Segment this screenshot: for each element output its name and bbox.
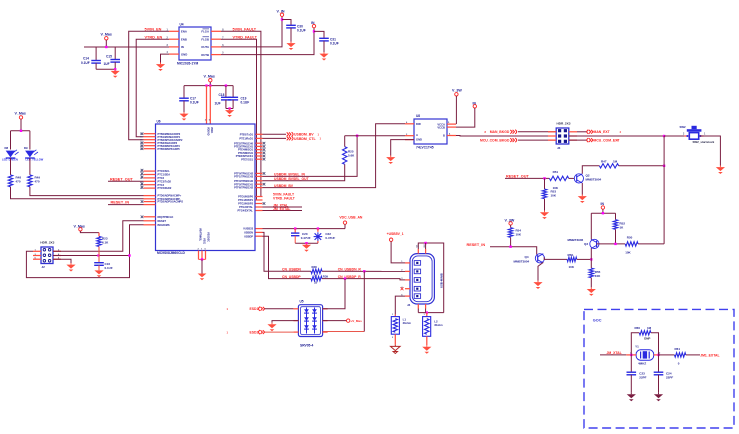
wire OUTB up to IN node <box>221 28 314 55</box>
wire R47 to SW2 node <box>619 165 664 167</box>
svg-text:0.47UF: 0.47UF <box>325 236 335 240</box>
svg-text:PTG1/KBIP1: PTG1/KBIP1 <box>238 198 253 202</box>
wire USB shield top loop <box>418 243 443 313</box>
svg-text:USBDN: USBDN <box>244 231 253 235</box>
svg-text:Q4: Q4 <box>525 255 529 259</box>
svg-text:RESET_OUT: RESET_OUT <box>506 174 529 178</box>
svg-text:0.1UF: 0.1UF <box>330 42 339 46</box>
svg-text:R51: R51 <box>553 170 559 174</box>
svg-text:V_3W: V_3W <box>452 89 462 93</box>
power flag IN <box>311 21 316 28</box>
svg-text:2: 2 <box>392 337 394 339</box>
junction crystal pin1 <box>630 354 632 356</box>
svg-text:U4: U4 <box>180 23 184 27</box>
resistor R51 10K series <box>549 170 568 190</box>
header J2 pin stubs <box>33 250 61 260</box>
svg-text:R38: R38 <box>312 265 318 269</box>
junction shield bottom <box>426 311 428 313</box>
svg-text:LED_YELLOW: LED_YELLOW <box>26 158 44 162</box>
wire USBDP to series resistor <box>263 236 312 278</box>
svg-text:ESD2: ESD2 <box>250 331 259 335</box>
junction USBDN ESD tap <box>363 270 365 272</box>
capacitor C19 0.1UF loop <box>226 86 249 109</box>
svg-text:MMBT3906: MMBT3906 <box>568 238 584 242</box>
wire header pin2 up to MCU RESET <box>53 221 144 252</box>
svg-text:FLGA: FLGA <box>201 30 209 34</box>
svg-text:Q3: Q3 <box>584 242 588 246</box>
wire header pin4 to BKGD vertical <box>53 255 130 257</box>
svg-text:GND: GND <box>416 138 422 142</box>
wire PTF riser 1 to A-pin bus <box>263 136 358 177</box>
svg-text:MCU_COM_BKGD: MCU_COM_BKGD <box>480 138 510 142</box>
svg-text:+V_Mas: +V_Mas <box>351 319 363 323</box>
svg-text:Y1: Y1 <box>635 345 639 349</box>
transistor Q3 MMBT3906 (PNP) <box>568 238 600 249</box>
wire CN_USBDP_R to USB pin3 <box>322 279 405 280</box>
MCU left pin stubs group IRQ RESET BKGD <box>141 215 174 227</box>
junction VSS node <box>201 258 203 260</box>
svg-text:10K: 10K <box>625 250 631 254</box>
power flag IN reset divider <box>601 202 605 213</box>
ground below C30 <box>290 42 292 44</box>
svg-text:0.47UF: 0.47UF <box>301 236 311 240</box>
off-page connector MCU_COM_EXT <box>569 138 621 143</box>
junction on IN rail at V_Mas drop <box>105 46 107 48</box>
wire Q2 emitter to ground <box>581 183 583 195</box>
svg-text:BKGD/MS: BKGD/MS <box>158 223 170 227</box>
svg-text:D8: D8 <box>5 146 9 150</box>
wire U5 pin4 up to CN_USBDN_R <box>323 331 365 333</box>
capacitor C24 22PF <box>654 355 674 393</box>
svg-text:OUTB: OUTB <box>201 53 209 57</box>
svg-text:U6: U6 <box>157 120 161 124</box>
net label JM1_EXTAL in GOC <box>686 353 720 357</box>
svg-text:SW2_startstock: SW2_startstock <box>693 140 715 144</box>
resistor R49 470 <box>28 175 41 187</box>
junction rail <box>205 84 207 86</box>
svg-text:8: 8 <box>485 130 487 134</box>
svg-text:1: 1 <box>424 314 426 316</box>
chip U8 74LVC1T45 body <box>414 114 447 150</box>
svg-text:30ohm: 30ohm <box>403 321 412 325</box>
capacitor C30 0.1UF on V_IN <box>282 20 306 42</box>
ground L1 (outline) <box>394 345 396 347</box>
svg-text:R56: R56 <box>568 253 574 257</box>
ground below C17 <box>183 112 185 114</box>
net node +V_Mas at U5 pin5 <box>323 319 362 323</box>
resistor R39 on USBDP <box>311 275 328 285</box>
svg-text:MAN_EXT: MAN_EXT <box>594 130 611 134</box>
wire Q2 collector up <box>582 166 599 174</box>
svg-text:470: 470 <box>16 180 21 184</box>
svg-text:U8: U8 <box>416 114 420 118</box>
junction pullup tap <box>97 254 99 256</box>
power flag V_3W reset-in pullup <box>505 219 515 228</box>
LED D9 LED_YELLOW <box>24 131 44 175</box>
resistor R50 10K <box>625 236 638 255</box>
ground R55 <box>590 287 592 289</box>
wire R49 to MCU PTD row <box>30 187 144 196</box>
svg-text:30ohm: 30ohm <box>434 323 443 327</box>
capacitor C20 0.47UF <box>291 227 311 243</box>
dashed box GOC oscillator section <box>584 309 734 428</box>
svg-text:D9: D9 <box>24 146 28 150</box>
resistor R55 10K <box>589 268 601 287</box>
wire RESET_OUT stub <box>108 180 144 182</box>
header J3 pin stubs <box>548 132 577 140</box>
svg-text:1K: 1K <box>620 225 625 229</box>
ground Q2 emitter <box>581 195 583 197</box>
wire U5 pin2 to ground <box>272 321 298 323</box>
svg-text:470: 470 <box>35 180 40 184</box>
svg-text:VDDAD: VDDAD <box>206 127 209 136</box>
wire FLGB down right side of MCU to PTG row <box>221 39 257 200</box>
svg-text:33: 33 <box>314 281 318 285</box>
resistor R48 470 <box>8 175 21 187</box>
svg-text:CN_USBDN_R: CN_USBDN_R <box>338 267 362 271</box>
ground below C14 C15 <box>114 69 116 71</box>
junction USBDP ESD tap <box>344 277 346 279</box>
svg-text:PTG3/XTAL: PTG3/XTAL <box>239 205 253 209</box>
junction crystal pin2 <box>657 354 659 356</box>
wire U4 GND to ground <box>161 54 170 62</box>
junction R54 tap <box>509 246 511 248</box>
svg-text:CN_USBDP: CN_USBDP <box>282 275 301 279</box>
wire CN_USBDN_R to USB pin2 <box>322 270 405 272</box>
svg-text:4MHZ: 4MHZ <box>638 362 646 366</box>
svg-text:5.6K: 5.6K <box>348 154 355 158</box>
resistor R23 6.1K pullup <box>97 233 109 247</box>
off-page connector MAN_BKGD <box>485 130 517 135</box>
ferrite bead L2 <box>423 313 444 346</box>
U8 pin stubs <box>405 122 456 140</box>
resistor R38 on USBDN <box>311 265 322 277</box>
svg-text:OUTA: OUTA <box>201 45 209 49</box>
svg-text:1M: 1M <box>613 160 618 164</box>
svg-text:MMBT3904: MMBT3904 <box>586 178 602 182</box>
svg-text:JM_EXTAL: JM_EXTAL <box>273 207 290 211</box>
svg-text:J4: J4 <box>407 303 411 307</box>
svg-text:J2: J2 <box>42 265 46 269</box>
wire MAN_BKGD to header <box>518 131 556 133</box>
svg-text:HDR_2X3: HDR_2X3 <box>40 241 54 245</box>
wire RESET_IN to Q4 base <box>490 247 537 255</box>
junction pin4 node <box>128 254 130 256</box>
ground below C18 C19 <box>229 109 231 111</box>
svg-text:R61: R61 <box>675 347 681 351</box>
wire RESET_IN stub <box>108 204 144 206</box>
wire R23 to cap C16 (highlighted) <box>98 247 100 263</box>
vertical ESD tap to USBDN row <box>363 271 365 331</box>
wire USB shield bottom bus <box>418 312 443 314</box>
svg-text:PTC4: PTC4 <box>158 183 165 187</box>
wire FLGA down right side of MCU to PTG row <box>221 31 261 196</box>
wire ENB to MCU PTB row <box>136 39 169 137</box>
svg-text:PTE7/SS1: PTE7/SS1 <box>241 157 253 161</box>
vertical wire SW2 node down to R50 <box>663 136 665 244</box>
LED D8 LED_GREEN <box>2 131 19 175</box>
connector J4 USB-MINIB body <box>407 254 444 308</box>
chip U5 SRV05-4 body <box>298 299 322 347</box>
svg-text:L1: L1 <box>403 318 407 322</box>
svg-text:L2: L2 <box>434 320 438 324</box>
svg-text:PTC2: PTC2 <box>158 176 165 180</box>
net label VDC_USB_AN <box>339 216 363 225</box>
wire VUSB33 rail <box>263 224 346 228</box>
svg-text:R50: R50 <box>627 236 633 240</box>
net label JM_XTAL <box>263 203 303 207</box>
svg-text:IN: IN <box>181 45 184 49</box>
wire header pin6 to ground <box>53 259 71 263</box>
svg-text:SRV05-4: SRV05-4 <box>300 344 313 348</box>
wire V_Mas rail to U4 IN pin <box>84 46 169 48</box>
svg-text:HDR_2X3: HDR_2X3 <box>557 122 571 126</box>
svg-text:6.1K: 6.1K <box>102 241 109 245</box>
svg-text:GOC: GOC <box>593 319 602 323</box>
wire joining C14 C15 bottoms <box>96 68 115 70</box>
svg-text:0.1UF: 0.1UF <box>81 61 90 65</box>
capacitor C16 0.1UF <box>94 262 113 270</box>
svg-text:1: 1 <box>392 314 394 316</box>
svg-text:R47: R47 <box>601 160 607 164</box>
ground R53 <box>544 211 546 213</box>
wire USB pin5 down to L1 <box>395 296 405 315</box>
svg-text:74LVC1T45: 74LVC1T45 <box>416 146 434 150</box>
svg-text:VDC_USB_AN: VDC_USB_AN <box>339 216 363 220</box>
svg-text:22PF: 22PF <box>666 376 673 380</box>
svg-text:FLGB: FLGB <box>201 37 209 41</box>
wire PTF riser 3 to U8 DIR <box>263 124 406 188</box>
wire Q3 collector-emitter vertical <box>590 248 592 268</box>
wire shield pin G2 top <box>425 243 427 249</box>
svg-text:USBDM_CTL: USBDM_CTL <box>294 137 316 141</box>
svg-text:1: 1 <box>704 134 706 136</box>
resistor R60 1M feedback <box>631 326 658 355</box>
MCU VDD pin stubs (vertical red) <box>205 86 211 124</box>
svg-text:0.1UF: 0.1UF <box>241 101 250 105</box>
transistor Q4 MMBT3904 <box>514 254 545 264</box>
wire R51 to Q2 base <box>569 177 575 179</box>
power flag V_Mas reset pullup <box>74 224 100 232</box>
capacitor C17 0.1UF <box>179 86 199 112</box>
resistor R52 1K <box>613 220 625 244</box>
svg-text:DNP: DNP <box>644 336 650 340</box>
wire U8 B to BDM header row (MCU_COM_BKGD) <box>456 135 556 138</box>
wire U8 GND to ground <box>391 140 414 156</box>
wire USBDN to series resistor <box>263 232 312 271</box>
svg-text:RESET: RESET <box>158 219 167 223</box>
svg-text:0.1UF: 0.1UF <box>105 266 113 270</box>
ground below C16 <box>98 269 100 271</box>
svg-text:1: 1 <box>320 137 322 141</box>
svg-text:PTB5/KBIP5/ADP5: PTB5/KBIP5/ADP5 <box>158 147 181 151</box>
off-page connector ESD1 <box>250 307 294 312</box>
ground L2 <box>426 345 428 347</box>
svg-text:DIR: DIR <box>416 122 421 126</box>
wire IN node tee <box>591 213 615 239</box>
svg-text:VSSOSC: VSSOSC <box>207 232 210 242</box>
svg-text:4: 4 <box>620 130 622 134</box>
svg-text:10K: 10K <box>569 265 575 269</box>
svg-text:C15: C15 <box>106 55 112 59</box>
junction cap bottoms <box>305 242 307 244</box>
svg-text:1: 1 <box>227 307 229 311</box>
svg-text:22PF: 22PF <box>639 376 646 380</box>
svg-text:J3: J3 <box>557 146 561 150</box>
power flag V_Mas above MCU <box>204 75 215 86</box>
power flag V_3W for U8 <box>452 89 462 124</box>
svg-text:10K: 10K <box>551 194 557 198</box>
ground below MCU VSS <box>198 274 207 281</box>
capacitor C15 1UF on IN rail <box>104 47 121 69</box>
MCU right pin stubs VUSB33 USBDN USBDP <box>243 227 262 239</box>
junction SW2 node <box>663 135 665 137</box>
svg-text:MAN_BKGD: MAN_BKGD <box>490 130 510 134</box>
junction at cap bottoms <box>114 68 116 70</box>
svg-text:PTC0/SCL: PTC0/SCL <box>158 169 171 173</box>
svg-text:PTE1/RxD1: PTE1/RxD1 <box>239 137 253 141</box>
wire RESET_OUT to R51 <box>505 177 549 179</box>
svg-text:C14: C14 <box>83 57 89 61</box>
svg-text:0.1UF: 0.1UF <box>297 29 306 33</box>
junction OUTA cap tap <box>281 18 283 20</box>
svg-text:PTE0/TxD1: PTE0/TxD1 <box>240 132 254 136</box>
svg-text:USB-MINIB: USB-MINIB <box>440 273 444 288</box>
off-page connector MCU_COM_BKGD <box>480 138 556 142</box>
header HDR_2X3 J3 <box>556 122 571 150</box>
V_Mas decoupling rail <box>184 85 233 87</box>
svg-text:V_Mas: V_Mas <box>204 75 215 79</box>
wire A-pin bus to U8 A <box>345 135 405 137</box>
wire shield pins bottom <box>418 309 425 313</box>
ground U8 <box>390 156 392 158</box>
wire cap bottoms bar <box>295 242 318 244</box>
junction IN tee <box>602 212 604 214</box>
off-page connector MAN_EXT <box>577 130 622 135</box>
U5 pin stubs <box>293 309 327 332</box>
svg-text:0.1UF: 0.1UF <box>190 101 199 105</box>
junction SW2 vertical <box>663 165 665 167</box>
svg-text:ENA: ENA <box>181 30 187 34</box>
ground C24 (maroon) <box>658 393 660 395</box>
wire header pin1 loop to MCU BKGD (left route) <box>26 225 143 278</box>
wire Q3 base to R52 R50 node <box>597 243 626 245</box>
svg-text:PTC5/RxD2: PTC5/RxD2 <box>158 186 172 190</box>
op-amp U4 power distribution switch MIC2026-1YM body <box>177 23 211 66</box>
svg-text:ESD1: ESD1 <box>250 307 259 311</box>
svg-text:C18: C18 <box>219 93 225 97</box>
svg-text:VSS1: VSS1 <box>203 238 206 245</box>
svg-text:R60: R60 <box>635 326 641 330</box>
MCU right pin stubs group PTG <box>237 195 265 213</box>
svg-text:VDD1: VDD1 <box>210 127 213 134</box>
resistor R61 0 series <box>659 347 686 365</box>
svg-text:V_Mas: V_Mas <box>15 112 26 116</box>
svg-text:PTF6/TPM2CH2: PTF6/TPM2CH2 <box>234 186 253 190</box>
svg-text:PTF1/TPM1CH3: PTF1/TPM1CH3 <box>234 175 253 179</box>
net label JM_EXTAL <box>263 207 303 211</box>
svg-text:USBDP: USBDP <box>244 234 253 238</box>
transistor Q2 MMBT3904 <box>574 174 601 184</box>
resistor R53 10K base pulldown <box>542 178 557 210</box>
wire R48 to MCU PTD row <box>11 187 144 199</box>
svg-text:PTD2/ADP10/ACMPO: PTD2/ADP10/ACMPO <box>158 200 184 204</box>
svg-text:ENB: ENB <box>181 37 187 41</box>
svg-text:VUSB33: VUSB33 <box>243 227 253 231</box>
junction Q3 emitter node <box>590 258 592 260</box>
svg-text:SW2: SW2 <box>680 125 687 129</box>
svg-text:B: B <box>443 134 445 138</box>
wire VSS to ground <box>201 259 203 273</box>
crystal Y1 4MHz <box>626 345 661 366</box>
svg-text:JM1_EXTAL: JM1_EXTAL <box>700 353 719 357</box>
ground SW2 <box>719 166 721 168</box>
wire Q4 emitter to ground <box>538 262 543 280</box>
svg-text:10K: 10K <box>516 233 522 237</box>
svg-text:10K: 10K <box>595 274 601 278</box>
header HDR_2X3 J2 (BDM) <box>40 241 54 269</box>
wire U5 pin6 up to CN_USBDP_R <box>323 279 345 309</box>
svg-text:JM_XTAL: JM_XTAL <box>607 351 622 355</box>
MCU right pin stubs group PTF <box>234 172 265 190</box>
capacitor C23 22PF <box>627 355 647 393</box>
svg-text:VCCB: VCCB <box>437 126 445 130</box>
svg-text:MC9S08JM60CLD: MC9S08JM60CLD <box>157 251 185 255</box>
resistor R25 5.6K on riser <box>343 136 356 165</box>
svg-text:1: 1 <box>318 133 320 137</box>
capacitor C31 0.1UF on IN node <box>314 31 339 52</box>
wire ENA to MCU PTB row <box>129 31 169 139</box>
svg-text:RESET_IN: RESET_IN <box>467 243 486 247</box>
U4 pin stubs and numbers <box>167 29 225 54</box>
ground below C31 <box>323 52 325 54</box>
capacitor C22 0.47UF (star symbol) <box>314 227 336 243</box>
svg-text:LED_GREEN: LED_GREEN <box>2 158 18 162</box>
resistor R54 10K <box>508 228 521 247</box>
svg-text:VBATMHSL: VBATMHSL <box>199 228 202 242</box>
power flag V_Mas LED circuit <box>15 112 26 131</box>
svg-text:PTG0/KBIP0: PTG0/KBIP0 <box>238 195 253 199</box>
svg-text:2: 2 <box>683 134 685 136</box>
ground U5 pin2 <box>271 323 273 325</box>
ferrite bead L1 <box>391 314 411 345</box>
ground for U4 <box>160 63 162 65</box>
USB pin stubs <box>401 244 426 309</box>
capacitor C18 1UF <box>215 86 232 109</box>
junction shield top <box>424 242 426 244</box>
resistor R56 10K <box>567 253 577 269</box>
capacitor C14 0.1UF on IN rail <box>81 47 101 69</box>
svg-text:IRQ/TPMCLK: IRQ/TPMCLK <box>158 215 174 219</box>
power flag V_Mas (top-left, feeds U4 IN rail) <box>101 33 112 47</box>
junction Q3 base node <box>614 243 616 245</box>
power flag +USB5V_1 <box>387 232 404 241</box>
junction OUTB cap tap <box>313 30 315 32</box>
svg-text:A: A <box>416 133 418 137</box>
MCU left pin stubs group PTC <box>140 169 172 190</box>
svg-text:PTC3/TxD2: PTC3/TxD2 <box>158 179 172 183</box>
svg-text:1UF: 1UF <box>104 62 110 66</box>
svg-text:0: 0 <box>678 361 680 365</box>
wire LED top bar <box>11 130 30 132</box>
svg-text:CN_USBDN: CN_USBDN <box>282 267 301 271</box>
svg-text:RESET_IN: RESET_IN <box>111 201 130 205</box>
wire SW2 to ground <box>700 136 721 166</box>
wire OUTA up to V_IN <box>221 16 282 47</box>
ground Q4 <box>537 281 539 283</box>
wire PTF riser 2 with resistor <box>263 164 345 181</box>
svg-text:1M: 1M <box>647 326 652 330</box>
